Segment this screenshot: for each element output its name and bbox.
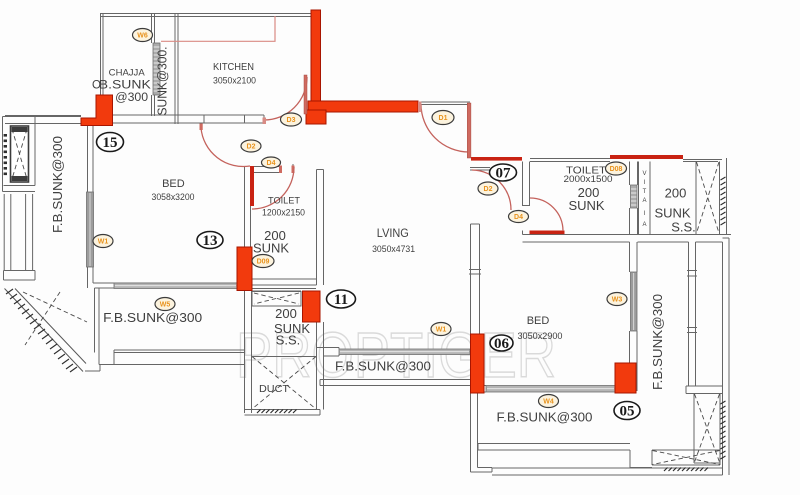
- lift box top-left: [11, 126, 29, 182]
- door jamb ticks toilet1 gap: [279, 166, 282, 174]
- node D2 bed1 door: [241, 140, 261, 152]
- svg-text:B.SUNK: B.SUNK: [99, 80, 151, 92]
- svg-text:S.S.: S.S.: [276, 333, 301, 348]
- node 13: [197, 232, 223, 250]
- window bed2 bottom W4: [486, 386, 615, 393]
- wall toilet2 top gray: [530, 159, 610, 162]
- wall right outer top duct: [720, 158, 727, 235]
- wall bed1 left upper: [88, 124, 94, 193]
- node W4 bed2 bottom: [539, 395, 559, 408]
- svg-text:1200x2150: 1200x2150: [262, 208, 305, 219]
- window bed1 bottom W5: [114, 283, 237, 289]
- wall toilet1 top: [251, 167, 281, 173]
- column kitchen right wall red: [311, 10, 321, 102]
- duct1 bottom hatch ticks: [257, 410, 297, 414]
- wall toilet2 top right gray: [683, 160, 722, 162]
- svg-text:BED: BED: [527, 315, 550, 327]
- wall vent strip VA: [639, 162, 651, 235]
- wall living-bed2 divider: [471, 224, 480, 334]
- door D2 bed1 arc: [201, 128, 250, 167]
- svg-text:3050x2900: 3050x2900: [518, 331, 563, 342]
- red wall line lobby 07: [471, 157, 522, 161]
- wall below living red column: [471, 393, 478, 472]
- wall 07 stub: [470, 168, 490, 171]
- wall ss strip divider: [695, 162, 697, 235]
- wall corner left below: [34, 271, 36, 281]
- svg-text:F.B.SUNK@300: F.B.SUNK@300: [497, 410, 593, 425]
- wall bed2 right lower: [630, 331, 638, 391]
- wall divider caps: [469, 270, 481, 275]
- svg-text:D08: D08: [610, 166, 623, 173]
- wall bed1 bottom band: [93, 283, 244, 288]
- wall band between column and kitchen: [113, 115, 265, 123]
- wall chajja right lower: [152, 95, 155, 116]
- svg-text:D1: D1: [439, 115, 448, 122]
- column toilet1 left: [237, 247, 252, 291]
- door D4 toilet1 arc inside: [252, 167, 294, 209]
- svg-text:D09: D09: [257, 259, 270, 266]
- node W6 chajja: [133, 29, 153, 42]
- wall kitchen bottom band left part: [5, 116, 81, 124]
- column C1 top-left L-shape: [81, 95, 113, 126]
- wall bed2 bottom band: [478, 444, 630, 451]
- window chajja right W6: [153, 43, 160, 95]
- node W1 bed1: [93, 235, 113, 248]
- lift shaft walls below: [4, 194, 36, 280]
- svg-text:3050x4731: 3050x4731: [372, 244, 415, 255]
- svg-text:D2: D2: [247, 144, 256, 151]
- svg-text:13: 13: [203, 233, 218, 249]
- door 07 lobby arc: [472, 170, 511, 210]
- node 07: [490, 164, 517, 182]
- svg-text:F.B.SUNK@300: F.B.SUNK@300: [103, 310, 202, 325]
- svg-text:V: V: [642, 171, 646, 177]
- svg-text:06: 06: [494, 336, 510, 352]
- duct1 dashed X: [252, 357, 316, 410]
- svg-text:DUCT: DUCT: [259, 383, 290, 395]
- svg-text:W1: W1: [98, 239, 109, 246]
- svg-text:O: O: [92, 80, 101, 92]
- wall bottom outer step: [471, 468, 493, 473]
- column living bottom: [471, 334, 485, 393]
- door D2 jamb tick: [200, 124, 203, 131]
- door D1 entry arc: [421, 104, 469, 152]
- node 11: [327, 290, 356, 308]
- window toilet2 right small: [631, 185, 638, 208]
- duct3 dashed X: [695, 394, 720, 462]
- red entry wall horizontal: [308, 101, 418, 112]
- node D08: [606, 162, 627, 175]
- wall toilet1 top jamb right: [292, 164, 294, 173]
- duct4 dashed X: [653, 451, 720, 465]
- wall toilet2 right lower: [630, 208, 638, 235]
- wall duct3 box outline: [694, 394, 720, 464]
- wall toilet1 bottom: [245, 279, 317, 285]
- door D3 leaf: [304, 75, 307, 114]
- red door leaf D4 toilet2: [530, 231, 565, 235]
- svg-text:W3: W3: [612, 297, 623, 304]
- wall bed2 window bottom jambs: [480, 386, 487, 393]
- wall toilet2 right upper: [630, 162, 638, 186]
- node D4 toilet1 door: [262, 157, 281, 168]
- wall toilet2 left: [523, 162, 530, 207]
- wall duct4 strip outline: [652, 450, 720, 465]
- svg-text:S.S.: S.S.: [671, 220, 696, 235]
- node D4 toilet2 door: [509, 211, 529, 223]
- right wall hatch ticks upper: [721, 177, 726, 225]
- svg-text:11: 11: [334, 292, 348, 308]
- door D3 kitchen arc: [264, 77, 307, 120]
- wall step under 11: [317, 322, 340, 356]
- wall strip2 walls: [689, 242, 696, 386]
- node D2 lobby: [478, 182, 498, 195]
- node 15: [97, 133, 124, 152]
- svg-text:LVING: LVING: [377, 228, 409, 240]
- wall right outer main: [723, 238, 730, 475]
- door D1 jamb tick: [418, 102, 421, 113]
- balcony diagonal edge: [5, 289, 87, 372]
- svg-text:A: A: [642, 198, 646, 204]
- column bed2 right: [615, 363, 636, 393]
- svg-text:07: 07: [496, 166, 512, 182]
- column near 11: [303, 291, 321, 322]
- svg-text:D3: D3: [287, 117, 296, 124]
- svg-text:3058x3200: 3058x3200: [152, 192, 195, 203]
- vent strip VA marks: [642, 171, 646, 228]
- red entry wall foot: [306, 110, 326, 124]
- svg-text:SUNK: SUNK: [654, 206, 690, 221]
- svg-text:CHAJJA: CHAJJA: [109, 68, 145, 78]
- svg-text:TOILET: TOILET: [268, 196, 300, 207]
- kitchen platform red outline: [161, 16, 275, 41]
- svg-text:F.B.SUNK@300: F.B.SUNK@300: [335, 359, 431, 374]
- svg-text:A: A: [642, 222, 646, 228]
- louver dashed marks: [254, 293, 299, 304]
- red wall line over toilet2 top: [610, 155, 683, 159]
- balcony diagonal hatch ticks: [6, 289, 77, 372]
- svg-text:@300: @300: [115, 92, 148, 104]
- svg-text:KITCHEN: KITCHEN: [213, 62, 254, 73]
- wall duct1 right: [317, 347, 324, 410]
- wall sunk strip right: [175, 14, 178, 124]
- wall chajja left: [101, 14, 104, 125]
- svg-text:200: 200: [665, 186, 687, 201]
- red wall segment toilet1 door: [250, 166, 254, 206]
- node D09: [252, 255, 274, 268]
- wall duct1 bottom: [245, 410, 321, 416]
- svg-text:F.B.SUNK@300: F.B.SUNK@300: [51, 136, 65, 233]
- svg-text:W1: W1: [436, 327, 447, 334]
- wall toilet2 left bottom jamb: [522, 231, 524, 235]
- wall ss bottom band: [523, 235, 732, 243]
- svg-text:15: 15: [103, 135, 118, 151]
- wall entry head lines: [418, 102, 470, 105]
- svg-text:SUNK@300.: SUNK@300.: [156, 47, 170, 116]
- svg-text:W6: W6: [137, 33, 148, 40]
- wall bed2 right upper: [630, 242, 638, 272]
- wall bottom outer boundary: [492, 468, 723, 475]
- svg-text:D4: D4: [514, 214, 523, 221]
- svg-text:SUNK: SUNK: [253, 241, 289, 256]
- wall kitchen door jamb: [203, 116, 205, 124]
- node 05: [614, 402, 640, 420]
- balcony dashed X: [23, 292, 87, 345]
- door D1 leaf: [467, 103, 471, 158]
- svg-text:SUNK: SUNK: [568, 198, 604, 213]
- svg-text:BED: BED: [162, 178, 185, 190]
- wall duct1 left: [245, 291, 252, 413]
- node D3 kitchen door: [281, 113, 302, 126]
- duct1 box top line: [252, 356, 316, 358]
- wall chajja right upper: [152, 14, 155, 43]
- door D3 jamb tick: [263, 118, 267, 125]
- node D1 entry door: [432, 111, 454, 125]
- svg-text:D4: D4: [267, 160, 276, 167]
- svg-text:3050x2100: 3050x2100: [213, 76, 256, 87]
- wall louver box: [252, 292, 301, 307]
- svg-text:F.B.SUNK@300: F.B.SUNK@300: [651, 294, 665, 390]
- hatch ticks left wall: [4, 134, 7, 175]
- duct2 top-right dashed X: [697, 162, 720, 233]
- window bed1 left W1: [87, 192, 94, 267]
- wall toilet1 right: [317, 170, 324, 286]
- door D4 toilet2 arc: [530, 198, 563, 231]
- wall bed1 left lower: [88, 267, 94, 288]
- wall bed2 bottom step: [630, 450, 652, 468]
- wall strip2 caps: [687, 271, 697, 333]
- wall toilet1 left: [245, 166, 251, 283]
- duct4 bottom hatch ticks: [664, 468, 708, 472]
- wall outer top-left boundary: [3, 117, 82, 192]
- wall top boundary kitchen+chajja: [100, 14, 311, 17]
- window living bottom W2 long band: [339, 349, 470, 355]
- window bed2 right W3: [631, 272, 638, 331]
- node W5 bottomleft: [155, 298, 175, 311]
- svg-text:W5: W5: [160, 302, 171, 309]
- wall left strip / chajja divider top: [34, 117, 36, 186]
- svg-text:D2: D2: [484, 186, 493, 193]
- wall strip2 bottom corner: [686, 386, 723, 394]
- svg-text:T: T: [643, 189, 647, 195]
- node W2 living bottom: [431, 323, 451, 336]
- svg-text:2000x1500: 2000x1500: [564, 174, 613, 185]
- node 06: [490, 335, 513, 352]
- svg-text:200: 200: [275, 306, 297, 321]
- node W3 bed2: [607, 293, 627, 306]
- wall living bottom band: [320, 380, 470, 386]
- right wall hatch ticks lower: [721, 401, 726, 459]
- svg-text:W4: W4: [543, 399, 554, 406]
- wall left balcony vertical: [95, 288, 100, 365]
- wall louver top band: [237, 289, 316, 292]
- svg-text:05: 05: [620, 404, 635, 420]
- wall bottom-left strip lower pair: [85, 365, 244, 372]
- wall bottom-left strip upper pair: [114, 350, 244, 365]
- wall lift bottom band: [4, 186, 36, 192]
